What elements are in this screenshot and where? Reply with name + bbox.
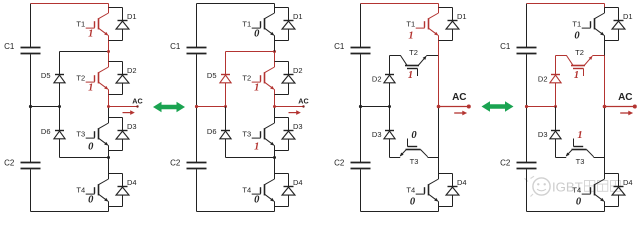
wire top DC rail <box>197 3 275 5</box>
diode D3 (clamp) <box>551 130 560 132</box>
node AC junction dot <box>273 105 276 108</box>
wire T3 collector to main column <box>428 157 439 159</box>
wire clamp column upper (node A to neutral) <box>225 52 227 75</box>
diode D5 (clamp) <box>221 74 230 76</box>
current direction arrow at AC <box>454 112 463 114</box>
diode D4 (antiparallel) <box>109 173 123 175</box>
wire T1 emitter to T2 branch junction <box>604 41 606 56</box>
wire left rail middle section <box>30 54 32 162</box>
wire DC+ rail (left, top section) panel 3 <box>360 4 362 48</box>
capacitor C2 <box>517 162 537 164</box>
wire top DC rail <box>31 3 109 5</box>
wire clamp column lower (neutral to node B) <box>59 107 61 131</box>
node A junction <box>273 50 276 53</box>
svg-text:1: 1 <box>577 130 582 141</box>
diode D2 (antiparallel) <box>109 61 123 63</box>
svg-text:D4: D4 <box>127 178 137 187</box>
capacitor C2 <box>21 162 41 164</box>
wire AC output <box>275 106 304 108</box>
diode D6 (clamp) <box>55 130 64 132</box>
diode D1 (antiparallel) <box>605 7 619 9</box>
wire T2 emitter to AC node <box>274 95 276 107</box>
svg-text:D3: D3 <box>538 130 548 139</box>
wire node B to T4 collector <box>274 158 276 174</box>
current direction arrow at AC <box>123 112 132 114</box>
svg-text:0: 0 <box>410 197 416 208</box>
node B junction <box>273 156 276 159</box>
svg-text:C1: C1 <box>170 42 181 51</box>
svg-text:T3: T3 <box>76 130 85 139</box>
node AC junction dot <box>603 105 607 109</box>
transistor T3 (IGBT) <box>274 118 276 124</box>
svg-text:0: 0 <box>411 130 417 141</box>
wire neutral point to clamp column <box>197 106 226 108</box>
svg-text:1: 1 <box>254 83 259 94</box>
wire T3 branch junction to T4 <box>604 158 606 174</box>
wire top rail to T1 collector <box>274 4 276 8</box>
svg-text:1: 1 <box>88 83 93 94</box>
svg-text:T1: T1 <box>76 20 85 29</box>
wire AC node down to T3 branch junction <box>438 107 440 158</box>
wire DC- rail (left, bottom section) <box>360 169 362 211</box>
svg-text:C2: C2 <box>334 159 345 168</box>
wire clamp column upper (branch to D2 to neutral) <box>389 56 391 75</box>
svg-text:T4: T4 <box>406 186 415 195</box>
svg-text:C2: C2 <box>500 159 511 168</box>
wire T3 emitter to node B <box>274 151 276 158</box>
wire DC- rail (left, bottom section) <box>30 169 32 211</box>
diode D1 (antiparallel) <box>439 7 453 9</box>
svg-text:D3: D3 <box>127 122 137 131</box>
svg-text:D2: D2 <box>293 66 303 75</box>
wire node B to T4 collector <box>108 158 110 174</box>
transistor T4 (IGBT) <box>604 174 606 180</box>
wire T3 branch junction to T4 <box>438 158 440 174</box>
svg-text:1: 1 <box>88 29 93 40</box>
svg-text:D2: D2 <box>372 74 382 83</box>
transistor T2 (horizontal IGBT) <box>401 56 407 66</box>
wire neutral point to clamp column <box>527 106 556 108</box>
svg-text:D5: D5 <box>41 71 51 80</box>
node clamp/neutral junction <box>224 105 227 108</box>
wire T4 emitter to DC- rail <box>108 207 110 212</box>
wire T3 collector to main column <box>594 157 605 159</box>
wire T4 emitter to DC- rail <box>274 207 276 212</box>
wire DC- rail (left, bottom section) <box>196 169 198 211</box>
svg-text:D3: D3 <box>372 130 382 139</box>
wire T1 emitter to node A <box>108 41 110 52</box>
capacitor C1 <box>21 47 41 49</box>
wire DC+ rail (left, top section) panel 1 <box>30 4 32 48</box>
svg-text:1: 1 <box>254 141 259 152</box>
svg-text:T1: T1 <box>406 20 415 29</box>
wire T3 emitter to node B <box>108 151 110 158</box>
wire top DC rail <box>361 3 439 5</box>
svg-text:T3: T3 <box>410 157 419 166</box>
wire AC node to T3 collector <box>274 107 276 118</box>
svg-text:D2: D2 <box>127 66 137 75</box>
wire node B (D6 to T3/T4 junction) <box>226 157 275 159</box>
svg-text:T2: T2 <box>575 48 584 57</box>
svg-text:D1: D1 <box>293 12 303 21</box>
svg-text:D4: D4 <box>293 178 303 187</box>
capacitor C1 <box>517 47 537 49</box>
transistor T2 (IGBT) <box>274 62 276 68</box>
svg-text:1: 1 <box>408 30 413 41</box>
transistor T4 (IGBT) <box>274 174 276 180</box>
svg-text:D4: D4 <box>623 178 633 187</box>
wire T2 emitter to AC node <box>108 95 110 107</box>
wire branch junction to AC node <box>604 56 606 107</box>
node clamp/neutral junction <box>388 105 391 108</box>
svg-text:T2: T2 <box>242 74 251 83</box>
svg-text:1: 1 <box>408 70 413 81</box>
transistor T4 (IGBT) <box>438 174 440 180</box>
wire AC node to T3 collector <box>108 107 110 118</box>
equivalence arrow 1 (green double arrow) <box>153 102 185 112</box>
wire neutral point to clamp column <box>31 106 60 108</box>
wire bottom DC rail <box>197 211 275 213</box>
node B junction <box>107 156 110 159</box>
svg-text:C2: C2 <box>4 159 15 168</box>
svg-text:D6: D6 <box>207 127 217 136</box>
node AC junction dot <box>107 105 110 108</box>
capacitor C2 <box>187 162 207 164</box>
wire AC node down to T3 branch junction <box>604 107 606 158</box>
transistor T1 (IGBT) <box>604 8 606 14</box>
wire T2 emitter to main column <box>426 55 438 57</box>
svg-text:0: 0 <box>88 195 94 206</box>
svg-text:AC: AC <box>132 96 142 105</box>
transistor T1 (IGBT) <box>274 8 276 14</box>
wire node A to T2 collector <box>108 52 110 62</box>
svg-text:D1: D1 <box>623 12 633 21</box>
wire T1 emitter to T2 branch junction <box>438 41 440 56</box>
wire AC output <box>605 106 635 108</box>
wire neutral point to clamp column <box>361 106 390 108</box>
svg-text:T2: T2 <box>409 48 418 57</box>
wire DC+ rail (left, top section) panel 2 <box>196 4 198 48</box>
wire T1 emitter to node A <box>274 41 276 52</box>
svg-text:AC: AC <box>618 92 632 103</box>
svg-text:0: 0 <box>574 30 580 41</box>
diode D4 (antiparallel) <box>605 173 619 175</box>
transistor T4 (IGBT) <box>108 174 110 180</box>
wire top rail to T1 collector <box>438 4 440 8</box>
wire node B (D6 to T3/T4 junction) <box>60 157 109 159</box>
diode D5 (clamp) <box>55 74 64 76</box>
svg-text:D3: D3 <box>293 122 303 131</box>
wire node A to T2 collector <box>274 52 276 62</box>
transistor T2 (horizontal IGBT) <box>567 56 573 66</box>
diode D2 (antiparallel) <box>275 61 289 63</box>
svg-text:C1: C1 <box>334 42 345 51</box>
svg-text:T2: T2 <box>76 74 85 83</box>
wire top rail to T1 collector <box>108 4 110 8</box>
wire DC+ rail (left, top section) panel 4 <box>526 4 528 48</box>
current direction arrow at AC <box>620 112 629 114</box>
node A junction <box>107 50 110 53</box>
diode D1 (antiparallel) <box>109 7 123 9</box>
wire AC output <box>109 106 138 108</box>
wire clamp column lower (neutral to D3 branch) <box>555 107 557 131</box>
diode D4 (antiparallel) <box>439 173 453 175</box>
wire bottom branch (clamp column to T3) <box>390 157 401 159</box>
node clamp/neutral junction <box>554 105 557 108</box>
diode D3 (antiparallel) <box>109 117 123 119</box>
wire clamp column upper (node A to neutral) <box>59 52 61 75</box>
capacitor C1 <box>351 47 371 49</box>
wire bottom DC rail <box>31 211 109 213</box>
transistor T3 (horizontal IGBT) <box>406 149 421 151</box>
svg-text:T4: T4 <box>76 186 85 195</box>
transistor T1 (IGBT) <box>438 8 440 14</box>
svg-text:D1: D1 <box>457 12 467 21</box>
wire T4 emitter to DC- rail <box>438 207 440 212</box>
diode D1 (antiparallel) <box>275 7 289 9</box>
wire top DC rail <box>527 3 605 5</box>
watermark logo circle <box>533 178 550 195</box>
wire left rail middle section <box>196 54 198 162</box>
svg-text:0: 0 <box>576 197 582 208</box>
wire left rail middle section <box>360 54 362 162</box>
equivalence arrow 2 (green double arrow) <box>482 101 514 111</box>
wire clamp column lower (neutral to node B) <box>225 107 227 131</box>
wire bottom DC rail <box>361 211 439 213</box>
svg-text:D2: D2 <box>538 74 548 83</box>
watermark glyph blocks <box>585 181 621 192</box>
diode D2 (clamp) <box>551 74 560 76</box>
transistor T3 (horizontal IGBT) <box>572 149 587 151</box>
node clamp/neutral junction <box>58 105 61 108</box>
wire top rail to T1 collector <box>604 4 606 8</box>
svg-text:AC: AC <box>452 92 466 103</box>
wire branch junction to AC node <box>438 56 440 107</box>
wire T2 emitter to main column <box>592 55 604 57</box>
svg-text:0: 0 <box>88 141 94 152</box>
svg-text:D1: D1 <box>127 12 137 21</box>
capacitor C2 <box>351 162 371 164</box>
svg-text:T4: T4 <box>572 186 581 195</box>
svg-text:D6: D6 <box>41 127 51 136</box>
wire T4 emitter to DC- rail <box>604 207 606 212</box>
wire node A (D5 to T1/T2 junction) <box>226 51 275 53</box>
svg-text:C2: C2 <box>170 159 181 168</box>
svg-text:D4: D4 <box>457 178 467 187</box>
svg-text:1: 1 <box>574 70 579 81</box>
svg-text:C1: C1 <box>500 42 511 51</box>
wire top branch (clamp column to T2) <box>390 55 401 57</box>
node AC junction dot <box>437 105 441 109</box>
svg-text:0: 0 <box>254 29 260 40</box>
wire bottom branch (clamp column to T3) <box>556 157 567 159</box>
svg-text:T1: T1 <box>572 20 581 29</box>
wire left rail middle section <box>526 54 528 162</box>
svg-text:AC: AC <box>298 96 308 105</box>
transistor T1 (IGBT) <box>108 8 110 14</box>
transistor T2 (IGBT) <box>108 62 110 68</box>
wire bottom DC rail <box>527 211 605 213</box>
wire AC output <box>439 106 469 108</box>
svg-text:C1: C1 <box>4 42 15 51</box>
wire clamp column lower (neutral to D3 branch) <box>389 107 391 131</box>
diode D2 (clamp) <box>385 74 394 76</box>
svg-text:T3: T3 <box>576 157 585 166</box>
svg-text:T1: T1 <box>242 20 251 29</box>
svg-text:T4: T4 <box>242 186 251 195</box>
current direction arrow at AC <box>289 112 298 114</box>
diode D3 (antiparallel) <box>275 117 289 119</box>
svg-text:D5: D5 <box>207 71 217 80</box>
transistor T3 (IGBT) <box>108 118 110 124</box>
wire clamp column upper (branch to D2 to neutral) <box>555 56 557 75</box>
svg-text:0: 0 <box>254 195 260 206</box>
svg-text:T3: T3 <box>242 130 251 139</box>
capacitor C1 <box>187 47 207 49</box>
diode D3 (clamp) <box>385 130 394 132</box>
wire node A (D5 to T1/T2 junction) <box>60 51 109 53</box>
diode D4 (antiparallel) <box>275 173 289 175</box>
diode D6 (clamp) <box>221 130 230 132</box>
wire top branch (clamp column to T2) <box>556 55 567 57</box>
wire DC- rail (left, bottom section) <box>526 169 528 211</box>
